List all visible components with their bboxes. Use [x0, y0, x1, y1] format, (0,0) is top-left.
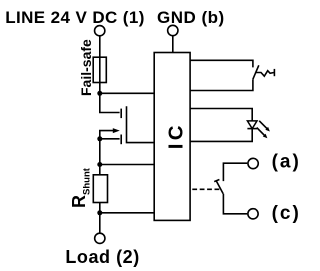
transistor Q1 bulk arrow [100, 131, 115, 139]
wire LED cathode to IC stub 4 [190, 129, 252, 142]
svg-text:(c): (c) [272, 203, 300, 224]
terminal 2 (Load) [95, 233, 105, 243]
terminal a [248, 158, 258, 168]
wire node B down to node C [99, 139, 101, 165]
wire node A to IC left [100, 92, 154, 94]
node B (source junction) [97, 136, 102, 141]
wire node C to IC left [100, 164, 154, 166]
terminal b (GND) [168, 25, 178, 35]
svg-text:GND (b): GND (b) [157, 8, 225, 27]
wire fuse to node A [99, 83, 101, 94]
wire contact to terminal c [223, 194, 247, 214]
wire resistor to node D [99, 203, 101, 213]
wire node C to resistor [99, 165, 101, 175]
wire IC right stub 1 (to thermal switch) [190, 60, 253, 67]
wire node D to IC left [100, 212, 154, 214]
wire node B to source plate [100, 138, 120, 140]
transistor Q1 gate line [127, 106, 155, 142]
svg-text:Load (2): Load (2) [65, 247, 139, 267]
terminal c [248, 209, 258, 219]
resistor R Shunt (body) [93, 175, 107, 203]
relay contact blade tick [214, 180, 219, 182]
wire terminal a to contact [223, 163, 247, 181]
switch S1 thermal contact blade [253, 65, 259, 79]
node D (below shunt) [97, 210, 102, 215]
LED light arrow 2 [257, 128, 265, 136]
wire GND terminal to IC top [172, 36, 174, 53]
node A (junction below fuse) [97, 91, 102, 96]
wire node A down to drain lead [100, 93, 120, 112]
wire switch bottom to IC stub 2 [190, 79, 253, 90]
thermal element end bar [273, 69, 275, 76]
thermal element zigzag [256, 71, 274, 77]
LED D1 (triangle) [247, 121, 257, 129]
svg-text:Fail-safe: Fail-safe [78, 39, 94, 96]
LED D1 cathode bar [247, 128, 257, 130]
wire terminal1 to fuse [99, 36, 101, 57]
svg-text:(a): (a) [272, 151, 300, 172]
LED light arrow 1 [259, 121, 267, 129]
transistor Q1 drain plate [120, 109, 122, 119]
transistor Q1 source plate [120, 135, 122, 145]
wire IC right stub 3 (LED anode) [190, 109, 252, 121]
dashed actuator link from IC [192, 188, 219, 190]
op-amp U1 IC block [154, 53, 190, 221]
wire through fuse [99, 57, 101, 82]
terminal 1 (LINE 24 V DC) [95, 26, 105, 36]
wire node D to Load terminal [99, 213, 101, 233]
relay contact K1 blade [216, 180, 223, 193]
svg-text:LINE 24 V DC (1): LINE 24 V DC (1) [5, 8, 145, 27]
fuse F1 Fail-safe (body) [93, 57, 106, 82]
svg-text:IC: IC [164, 122, 187, 149]
node C (above shunt) [97, 162, 102, 167]
